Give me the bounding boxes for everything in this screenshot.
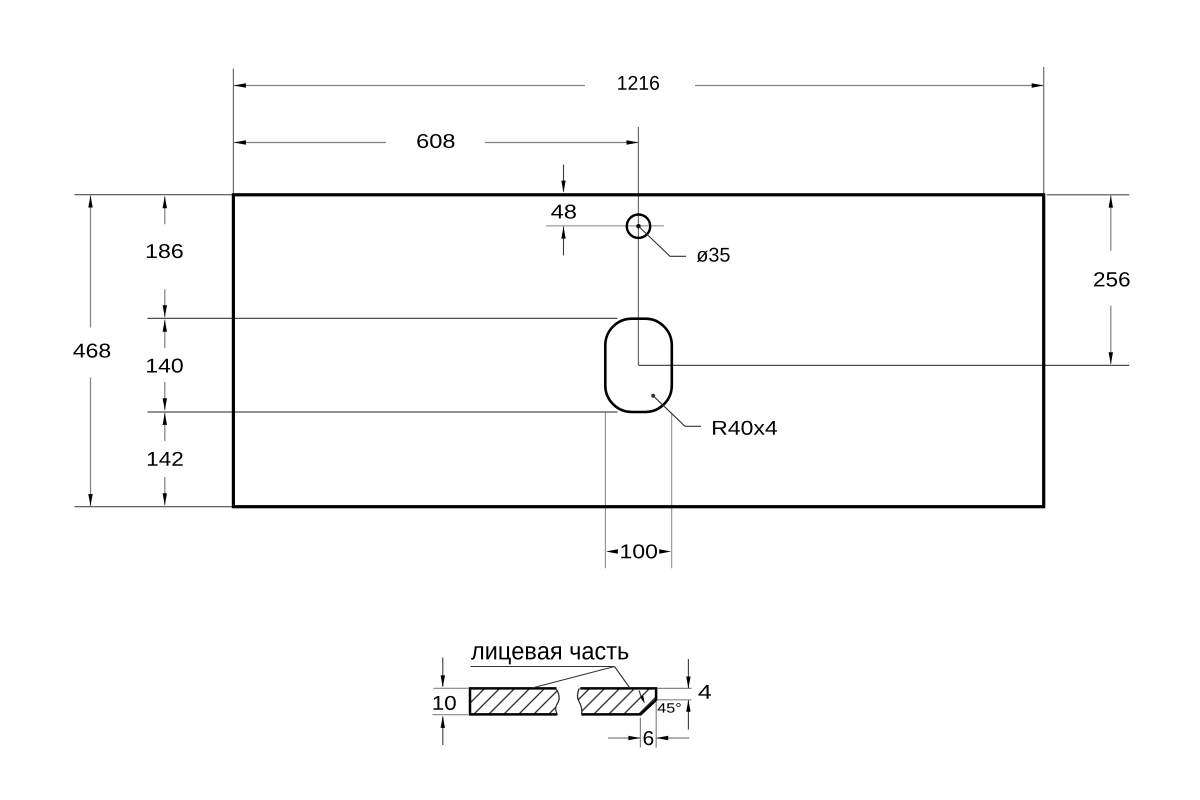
dim 142 bottom tail [164,477,166,505]
arrow 140 top pointing up [163,320,167,332]
text 186 [147,244,183,258]
dim 6 left tail [608,737,640,739]
dim 608 line right segment [485,142,639,144]
drain cutout oval R40x4 [605,319,672,412]
leader 45deg [639,691,643,701]
arrow 256 top pointing up [1109,196,1113,208]
arrow 10 top pointing down [441,675,445,687]
dim 186 bottom tail [164,289,166,317]
text 10 [433,696,455,710]
ext line vertical right x=1042.3 [1043,67,1045,193]
section bar right portion hatch fill [577,688,656,714]
arrow 4 top pointing down [686,677,690,689]
label leader to right bar [615,667,630,688]
dim 4 top tail [687,659,689,688]
arrow 48 bottom pointing up [561,227,565,239]
arrow 142 top pointing up [163,413,167,425]
dim 468 bottom segment [90,378,92,507]
arrow 48 top pointing down [561,181,565,193]
faucet hole center dot [636,224,640,228]
arrow 140 bottom pointing down [163,398,167,410]
text 256 [1094,272,1130,287]
text 608 [417,134,454,148]
text litsevaya-chast label [471,646,628,664]
arrow 10 bottom pointing up [441,716,445,728]
dim 48 bottom tail [563,227,565,256]
arrow 45deg tip [640,695,645,703]
ext 4 top [657,687,691,689]
dim 186 top tail [164,196,166,224]
text 45deg [658,703,681,713]
dim 4 bottom tail [687,700,689,729]
text 140 [147,359,183,373]
text 142 [148,452,183,466]
section bar left portion hatch fill [470,688,560,714]
ext 6 left [639,718,641,748]
arrow 186 bottom pointing down [163,305,167,317]
dim 142 top tail [164,413,166,441]
ext line top-left horizontal [75,194,233,196]
text 468 [73,344,110,358]
dim 256 top tail [1110,196,1112,251]
arrow 6 left pointing right [628,736,640,740]
centerline horizontal oval to right [639,364,1130,366]
arrow 4 bottom pointing up [686,700,690,712]
countertop outline [233,195,1043,507]
text 48 [551,205,576,219]
ext line vertical left x=233.8 [232,69,234,194]
arrow 1216 left [234,83,246,87]
dim 140 bottom tail [164,382,166,410]
text 4 [698,685,711,699]
dim 1216 line right segment [695,85,1044,87]
text dia35 [697,248,730,262]
dim 10 top tail [442,658,444,687]
ext line below oval right [671,413,673,569]
ext 6 right [655,702,657,748]
label underline [471,666,615,668]
ext 10 bottom [433,714,469,716]
arrow 468 bottom pointing down [88,494,92,506]
section bar right portion thick outline [580,688,656,714]
centerline vertical through circle to oval center [637,127,639,365]
dim 10 bottom tail [442,717,444,746]
leader dia35 [639,226,686,256]
arrow 1216 right [1032,83,1044,87]
dim 608 line left segment [234,142,386,144]
section bar left portion thick outline [470,688,557,714]
section bar left tear curve [556,688,560,714]
text 100 [621,544,657,558]
arrow 100 left pointing left [606,549,618,553]
label leader to left bar [532,667,615,689]
text 1216 [618,76,659,90]
dim 1216 line left segment [234,85,585,87]
dim 468 top segment [90,196,92,328]
arrow 100 right pointing right [659,549,671,553]
ext line below oval left [604,413,606,569]
ext 10 top [433,687,468,689]
arrow 142 bottom pointing down [163,493,167,505]
dim 140 top tail [164,320,166,348]
arrow 256 bottom pointing down [1109,352,1113,364]
arrow 468 top pointing up [88,196,92,208]
centerline horizontal through circle [546,225,664,227]
faucet hole circle [627,215,650,238]
arrow 6 right pointing left [656,736,668,740]
ext 4 bottom [657,699,691,701]
arrow 608 left [234,140,246,144]
ext line 186/140 boundary [148,317,618,319]
section bar right tear curve [577,688,581,714]
ext line 140/142 boundary [148,411,618,413]
text 6 [644,731,654,745]
text R40x4 [713,421,777,435]
dim 6 right tail [656,737,689,739]
arrow 186 top pointing up [163,196,167,208]
ext line top-right horizontal [1047,194,1130,196]
ext line bottom-left horizontal [75,506,233,508]
leader R40x4 dot [651,394,655,398]
leader R40x4 [653,396,701,427]
dim 256 bottom tail [1110,306,1112,365]
arrow 608 right [627,140,639,144]
dim 48 top tail [563,165,565,192]
